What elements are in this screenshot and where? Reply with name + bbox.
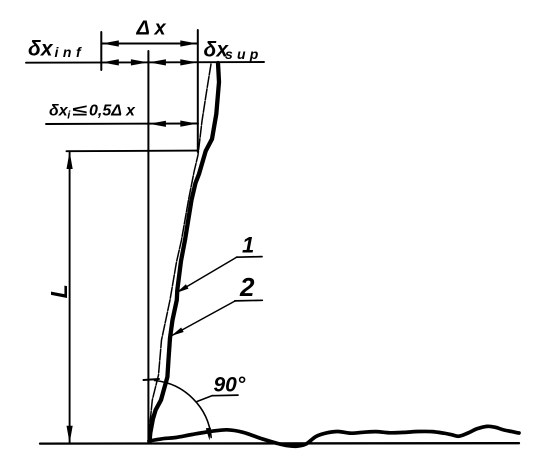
- svg-text:2: 2: [239, 272, 255, 302]
- svg-text:inf: inf: [55, 44, 86, 60]
- svg-text:0,5Δ: 0,5Δ: [89, 103, 122, 120]
- svg-text:Δ: Δ: [136, 18, 150, 40]
- svg-text:L: L: [46, 284, 72, 298]
- svg-text:x: x: [125, 103, 136, 120]
- svg-text:≤: ≤: [72, 103, 87, 120]
- svg-text:δx: δx: [28, 38, 54, 61]
- svg-text:x: x: [154, 18, 167, 40]
- svg-text:δx: δx: [49, 103, 69, 120]
- svg-text:90°: 90°: [214, 374, 246, 397]
- svg-text:1: 1: [242, 233, 254, 258]
- svg-text:sup: sup: [225, 46, 263, 62]
